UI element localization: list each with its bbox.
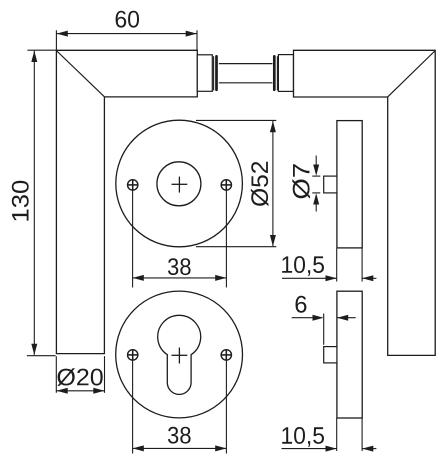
dim 10,5 bottom left arrow	[362, 446, 373, 452]
top rosette outer circle	[116, 120, 243, 247]
dim 10,5 top leader line	[282, 277, 337, 279]
dim 10,5 top left arrow	[362, 275, 373, 281]
dim O52 top extension line	[196, 119, 276, 121]
dim 10,5 top label	[282, 256, 324, 276]
dim 10,5 top right arrow	[326, 275, 337, 281]
dim 60 right extension line	[196, 30, 198, 50]
dim 38 top label	[168, 258, 191, 275]
dim 38 top left arrow	[133, 275, 144, 281]
dim 38 bottom left extension line	[132, 360, 134, 453]
dim 38 top right arrow	[215, 275, 226, 281]
dim 38 top line	[133, 277, 227, 279]
dim 130 top extension line	[27, 49, 56, 51]
right handle miter joint line	[388, 51, 435, 97]
dim 60 label	[116, 11, 139, 28]
top rosette left screw	[127, 180, 138, 191]
dim 60 left arrow	[57, 31, 68, 37]
right bearing ring thin edge	[276, 56, 278, 90]
dim 10,5 bottom label	[282, 427, 324, 447]
bottom rosette side profile plate	[337, 291, 362, 418]
dim 38 bottom right extension line	[225, 360, 227, 453]
dim 38 bottom label	[168, 427, 191, 444]
dim 130 line	[33, 51, 35, 355]
bottom rosette center cross	[172, 354, 188, 356]
left lever handle body (plan view)	[56, 50, 197, 353]
dim 130 label (rotated)	[12, 181, 29, 221]
dim 38 bottom line	[133, 447, 227, 449]
top side profile spindle boss	[324, 176, 337, 193]
dim O20 left arrow	[57, 388, 68, 394]
dim 60 left extension line	[55, 30, 57, 50]
dim O52 label (rotated)	[251, 162, 269, 206]
dim O20 label	[57, 368, 102, 386]
top rosette center cross	[172, 183, 188, 185]
dim 6 right shaft	[337, 317, 356, 319]
dim 10,5 bottom right shaft	[362, 448, 376, 450]
spindle top edge	[219, 63, 273, 65]
dim 60 line	[57, 33, 197, 35]
left bearing collar (thick)	[215, 56, 218, 89]
bottom rosette euro keyhole	[158, 315, 201, 394]
dim 6 label	[296, 296, 307, 313]
dim O7 top arrow shaft	[315, 156, 317, 171]
dim O52 line	[272, 121, 274, 246]
dim 10,5 bottom left extension line	[336, 418, 338, 451]
dim 130 bottom arrow	[31, 344, 37, 355]
left handle neck cylinder	[197, 55, 212, 92]
spindle bottom edge	[219, 82, 273, 84]
bottom rosette left screw	[127, 350, 138, 361]
top rosette right screw	[221, 180, 232, 191]
dim 60 right arrow	[186, 31, 197, 37]
dim O20 right arrow	[93, 388, 104, 394]
bottom rosette outer circle	[116, 291, 243, 418]
dim O52 bottom extension line	[196, 246, 276, 248]
dim 38 top right extension line	[225, 190, 227, 287]
dim 10,5 top left extension line	[336, 249, 338, 282]
dim 6 extension line	[323, 314, 325, 345]
dim 10,5 top right shaft	[362, 277, 376, 279]
bottom rosette right screw	[221, 350, 232, 361]
left handle miter joint line	[57, 51, 104, 97]
dim 6 right arrow	[337, 315, 348, 321]
bottom side profile cylinder boss	[324, 347, 337, 363]
right lever handle body (plan view)	[294, 50, 436, 355]
left bearing ring thin edge	[213, 56, 215, 90]
right bearing collar (thick)	[273, 56, 276, 89]
dim 38 bottom right arrow	[215, 445, 226, 451]
dim O7 label (rotated)	[292, 164, 310, 198]
dim O20 line	[57, 390, 105, 392]
dim O7 bottom arrow shaft	[315, 199, 317, 212]
dim O52 top arrow	[270, 121, 276, 132]
top rosette handle hole circle	[157, 162, 201, 206]
dim 6 left arrow	[313, 315, 324, 321]
dim 130 bottom extension line	[27, 355, 56, 357]
dim O7 bottom arrow	[313, 193, 319, 204]
dim O7 bottom tick	[312, 192, 320, 194]
dim 10,5 bottom right extension line	[361, 418, 363, 451]
top rosette side profile plate	[337, 121, 362, 248]
dim O7 top tick	[312, 175, 320, 177]
dim O20 right extension line	[104, 356, 106, 393]
dim O7 top arrow	[313, 165, 319, 176]
dim O20 left extension line	[55, 356, 57, 393]
right handle neck cylinder	[278, 55, 293, 92]
dim 6 left arrow shaft	[292, 317, 317, 319]
dim 10,5 bottom right arrow	[326, 446, 337, 452]
dim 38 bottom left arrow	[133, 445, 144, 451]
dim 10,5 top right extension line	[361, 249, 363, 282]
dim 10,5 bottom leader line	[282, 448, 337, 450]
dim 130 top arrow	[31, 51, 37, 62]
dim O52 bottom arrow	[270, 235, 276, 246]
dim 38 top left extension line	[132, 190, 134, 287]
